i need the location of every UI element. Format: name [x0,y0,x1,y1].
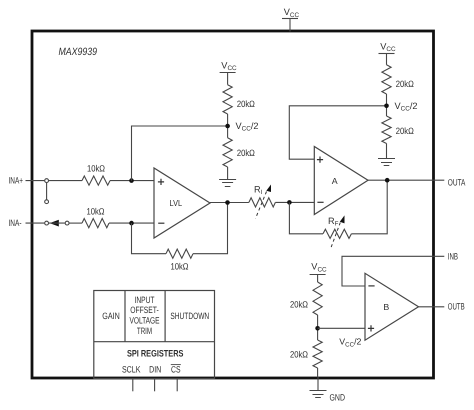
wire R1 to LVL noninverting input [110,180,154,182]
op-amp B [365,273,419,340]
op-amp A [314,147,368,215]
svg-text:VOLTAGE: VOLTAGE [130,316,160,326]
svg-text:GND: GND [330,392,346,402]
svg-text:INB: INB [448,251,458,261]
resistor 20k divider1 lower [223,138,255,167]
power VCC divider3 [310,262,327,282]
ground GND bottom pin [310,377,346,402]
svg-text:INPUT: INPUT [135,295,155,305]
wire divider1 mid [227,114,229,138]
pin label SCLK [122,365,141,375]
output pin OUTA [448,178,466,188]
wire INA- lead [26,222,45,224]
svg-text:10kΩ: 10kΩ [87,207,105,217]
wire A feedback up to output [351,180,387,234]
label MAX9939 [59,46,98,58]
svg-text:SHUTDOWN: SHUTDOWN [170,311,209,321]
svg-text:OUTB: OUTB [448,301,465,311]
register cell INPUT OFFSET-VOLTAGE TRIM [130,295,160,336]
svg-text:CS: CS [171,365,181,375]
ground divider1 [219,167,236,187]
resistor R 10k LVL feedback [166,249,193,272]
node VCC/2 divider2 [384,101,417,113]
svg-text:20kΩ: 20kΩ [396,126,414,136]
wire divider2 mid [386,94,388,116]
resistor 20k divider1 upper [223,85,255,114]
ground divider2 [378,144,395,166]
input pin INA+ [9,175,24,185]
svg-text:A: A [332,176,338,186]
svg-text:GAIN: GAIN [102,311,120,321]
wire R2 to LVL inverting input [109,222,154,224]
svg-text:OUTA: OUTA [448,178,466,188]
resistor 20k divider2 upper [382,65,414,94]
wire divider3 to GND [317,368,319,377]
IC outline MAX9939 [32,31,434,378]
wire RI to op-amp A inverting input [275,201,314,203]
node LVL output [225,200,230,205]
node junction A inverting [287,200,292,205]
input pin INA- [9,218,22,228]
svg-text:SCLK: SCLK [122,365,141,375]
SPI registers block outline [94,291,215,379]
label SPI REGISTERS [127,347,184,358]
resistor RI variable [249,185,276,219]
output pin OUTB [448,301,465,311]
svg-text:INA-: INA- [9,218,22,228]
svg-text:20kΩ: 20kΩ [290,300,308,310]
wire INA+ lead [26,180,45,182]
node VCC/2 divider1 [225,121,258,133]
svg-text:B: B [383,302,389,312]
svg-text:INA+: INA+ [9,175,24,185]
resistor 20k divider2 lower [382,116,414,144]
svg-text:TRIM: TRIM [137,326,152,336]
svg-text:10kΩ: 10kΩ [87,163,105,173]
svg-text:10kΩ: 10kΩ [171,262,189,272]
wire op-amp B output to OUTB [419,306,445,308]
wire divider3 mid [317,315,319,340]
svg-text:20kΩ: 20kΩ [237,99,255,109]
wire INB to op-amp B inverting [342,256,444,286]
register cell GAIN [102,311,120,321]
node OUTA [385,178,390,183]
node junction INA+ summing [129,178,134,183]
switch contact circles INA+ [45,179,49,204]
resistor R 10k INA- [82,207,109,228]
node junction INA- summing [129,221,134,226]
wire LVL feedback down [132,223,167,254]
wire VCC/2 to op-amp B noninverting [318,327,365,329]
wire DIN stub [154,379,156,391]
input pin INB [448,251,458,261]
register cell SHUTDOWN [170,311,209,321]
wire op-amp A noninverting to VCC/2 [289,106,386,159]
wire LVL feedback up to output [193,203,228,254]
svg-text:DIN: DIN [149,365,161,375]
resistor 20k divider3 lower [290,340,322,368]
wire A feedback down [289,202,323,233]
svg-text:OFFSET-: OFFSET- [130,305,159,315]
wire LVL output [210,202,249,204]
wire SCLK stub [132,379,134,391]
pin label CS active-low [171,365,181,375]
node VCC/2 divider3 [315,326,361,348]
svg-text:SPI REGISTERS: SPI REGISTERS [127,347,184,358]
svg-text:MAX9939: MAX9939 [59,46,98,58]
svg-text:20kΩ: 20kΩ [396,79,414,89]
power VCC divider2 [379,41,396,64]
wire op-amp A output to OUTA [368,179,444,181]
resistor 20k divider3 upper [290,282,322,315]
resistor R 10k INA+ [82,163,110,185]
pin label DIN [149,365,161,375]
svg-text:LVL: LVL [170,198,183,208]
power VCC top pin [282,7,299,31]
wire LVL noninverting bias to VCC/2 node [132,126,228,181]
wire CS stub [176,379,178,391]
op-amp LVL [154,168,210,238]
wire INA+ to R1 [49,180,82,182]
power VCC divider1 [220,60,237,84]
svg-text:20kΩ: 20kΩ [237,148,255,158]
svg-text:20kΩ: 20kΩ [290,350,308,360]
resistor RF variable [323,215,351,249]
wire INA- to R2 [69,222,82,224]
switch with arrow INA- [45,220,69,227]
